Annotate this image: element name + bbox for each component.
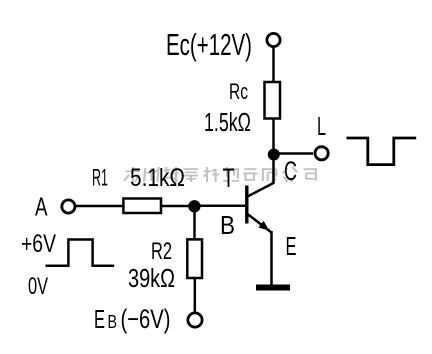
svg-text:39kΩ: 39kΩ [128, 263, 175, 293]
emitter arrowhead [259, 221, 270, 231]
wire collector [248, 157, 274, 197]
svg-text:R1: R1 [92, 165, 108, 192]
svg-text:A: A [35, 192, 48, 222]
svg-text:+6V: +6V [21, 230, 56, 258]
svg-text:1.5kΩ: 1.5kΩ [204, 109, 251, 137]
resistor R2 [187, 239, 202, 278]
svg-text:C: C [284, 156, 297, 186]
svg-text:B: B [108, 312, 118, 332]
svg-text:T: T [223, 163, 235, 193]
svg-text:B: B [220, 210, 235, 240]
wire R2 to terminal EB [194, 278, 197, 313]
wire Rc to node C [272, 119, 275, 157]
wire emitter diagonal [248, 214, 272, 233]
wire emitter to ground [270, 231, 273, 286]
svg-text:0V: 0V [28, 273, 48, 300]
wire Ec to Rc [272, 47, 275, 83]
node C junction [268, 149, 280, 161]
resistor R1 [123, 199, 161, 214]
ground [256, 285, 290, 291]
input waveform [46, 240, 115, 266]
watermark 杭州将睿科技有限公司 [124, 167, 317, 182]
transistor T base bar [245, 186, 248, 224]
resistor Rc [265, 82, 281, 119]
wire node B to R2 [193, 206, 196, 240]
svg-text:Rc: Rc [229, 79, 248, 104]
node B junction [188, 200, 200, 212]
terminal A [62, 200, 75, 213]
svg-text:(−6V): (−6V) [121, 304, 171, 334]
svg-text:E: E [286, 231, 297, 261]
terminal EB [188, 313, 202, 327]
wire R1 to node B [161, 205, 194, 208]
wire node C to terminal L [274, 152, 313, 155]
wire A to R1 [76, 205, 125, 208]
wire node B to base [195, 205, 246, 208]
svg-text:R2: R2 [151, 238, 172, 265]
svg-text:L: L [317, 111, 326, 141]
svg-text:5.1kΩ: 5.1kΩ [130, 164, 185, 192]
terminal L [315, 147, 328, 160]
output waveform [347, 138, 417, 165]
terminal Ec [267, 33, 280, 46]
svg-text:E: E [94, 306, 105, 334]
svg-text:Ec(+12V): Ec(+12V) [166, 28, 252, 62]
label EB(-6V) [94, 304, 171, 334]
